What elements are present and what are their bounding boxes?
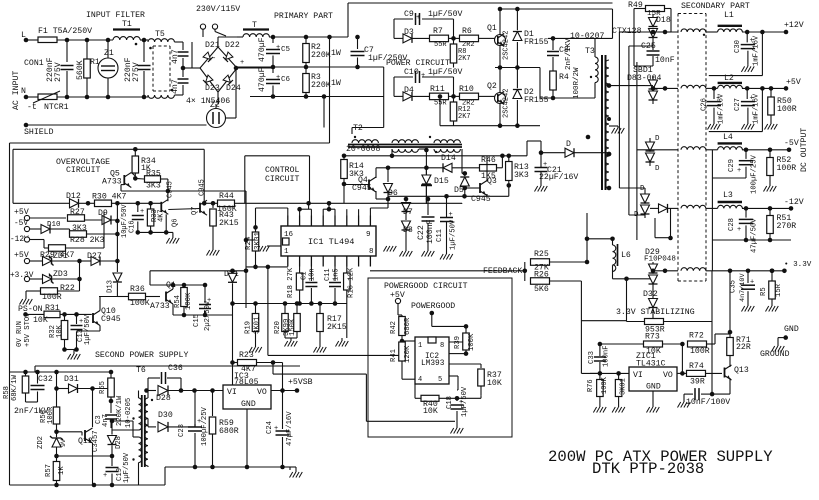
svg-text:VO: VO <box>663 371 673 380</box>
resistor R57 <box>56 456 58 462</box>
section wire <box>35 365 300 367</box>
capacitor C3a <box>182 68 184 77</box>
diode D13 <box>116 261 118 272</box>
resistor R10 <box>460 93 479 100</box>
svg-text:1W: 1W <box>331 79 341 88</box>
svg-text:C11: C11 <box>324 268 332 281</box>
svg-text:1µF/50V: 1µF/50V <box>84 314 92 345</box>
svg-text:+: + <box>276 44 280 52</box>
svg-text:2SC4242: 2SC4242 <box>503 89 511 118</box>
svg-text:Q3: Q3 <box>487 177 497 186</box>
svg-text:R19: R19 <box>245 321 253 334</box>
capacitor C29 <box>745 150 747 159</box>
resistor R71 <box>729 332 731 337</box>
svg-text:C15: C15 <box>193 314 201 327</box>
ground pads beside IC1 <box>262 245 264 247</box>
svg-text:10K: 10K <box>56 324 64 338</box>
svg-text:ZD1: ZD1 <box>53 252 68 261</box>
svg-text:IC1 TL494: IC1 TL494 <box>308 237 354 247</box>
resistor R13 <box>508 156 510 162</box>
svg-text:1mF/16V: 1mF/16V <box>753 93 761 124</box>
svg-text:10K: 10K <box>423 407 438 416</box>
capacitor C2 <box>182 42 184 50</box>
svg-text:C22: C22 <box>417 225 426 240</box>
svg-text:10n: 10n <box>309 268 317 281</box>
svg-text:D7: D7 <box>403 208 413 217</box>
IC1 bottom pin stubs <box>287 256 289 267</box>
toroid winding 3.3V <box>681 268 706 271</box>
toroid winding -5V <box>681 147 706 150</box>
svg-text:16: 16 <box>284 231 294 239</box>
wire to powergood input <box>268 354 402 356</box>
resistor R6 <box>460 35 479 42</box>
svg-text:D: D <box>655 135 660 143</box>
svg-text:-t: -t <box>27 103 37 112</box>
svg-text:55R: 55R <box>434 100 447 108</box>
capacitor C8 <box>552 38 554 50</box>
resistor R24 <box>255 208 257 232</box>
svg-text:R73: R73 <box>645 333 660 342</box>
svg-text:100K: 100K <box>185 292 193 310</box>
control circuit box <box>245 155 310 157</box>
svg-text:1mF/16V: 1mF/16V <box>718 93 726 124</box>
resistor R29 <box>49 245 66 252</box>
svg-text:C26: C26 <box>701 98 709 111</box>
riser x267 <box>267 267 269 356</box>
svg-text:ZD2: ZD2 <box>37 436 45 449</box>
resistor R39 <box>465 326 467 342</box>
svg-text:4× 1N5406: 4× 1N5406 <box>186 97 230 106</box>
svg-text:C1: C1 <box>301 272 309 280</box>
svg-text:R22: R22 <box>60 284 75 293</box>
svg-text:L4: L4 <box>723 133 733 142</box>
zener ZD2 <box>54 430 59 435</box>
capacitor C24 <box>282 391 284 430</box>
resistor R18 <box>299 267 301 274</box>
svg-text:1mF/16V: 1mF/16V <box>753 35 761 66</box>
svg-text:VO: VO <box>257 388 267 397</box>
svg-text:220K: 220K <box>311 81 331 90</box>
svg-text:2K15: 2K15 <box>327 323 347 332</box>
+5V output <box>745 86 750 91</box>
svg-text:275V: 275V <box>132 62 141 82</box>
diode single -12V <box>659 204 668 213</box>
svg-text:55R: 55R <box>434 41 447 49</box>
svg-text:100R: 100R <box>690 347 710 356</box>
IC3 output wire <box>271 390 297 392</box>
svg-text:Q2: Q2 <box>487 82 497 91</box>
top rail primary <box>271 35 276 40</box>
capacitor C1 <box>310 267 312 282</box>
svg-text:680R: 680R <box>404 317 412 335</box>
+12V sense wire <box>761 32 763 76</box>
svg-text:3K01: 3K01 <box>254 231 262 250</box>
svg-text:R41: R41 <box>390 349 398 362</box>
svg-text:100K: 100K <box>601 376 609 394</box>
svg-text:3K3: 3K3 <box>514 171 529 180</box>
svg-text:+: + <box>737 226 741 234</box>
svg-text:R42: R42 <box>390 321 398 334</box>
svg-text:120K: 120K <box>404 345 412 363</box>
resistor R25 <box>531 259 550 266</box>
resistor R17 <box>319 304 321 314</box>
mid node half bridge <box>498 65 503 70</box>
svg-text:SECONDARY PART: SECONDARY PART <box>681 2 750 11</box>
capacitor C18 <box>456 398 458 401</box>
capacitor C11b <box>446 196 448 217</box>
resistor R50 <box>770 88 772 97</box>
svg-text:R35: R35 <box>146 170 161 179</box>
svg-text:D: D <box>640 185 645 193</box>
svg-text:L3: L3 <box>723 191 733 200</box>
svg-text:FEEDBACK: FEEDBACK <box>483 267 522 276</box>
resistor R52 <box>769 150 771 157</box>
svg-text:R11: R11 <box>430 85 445 94</box>
svg-text:R72: R72 <box>689 332 704 341</box>
resistor R56 <box>53 407 60 424</box>
resistor R44 <box>218 200 235 207</box>
svg-text:C27: C27 <box>734 98 742 111</box>
svg-text:T3: T3 <box>585 47 595 56</box>
capacitor C15 <box>204 285 206 303</box>
capacitor C5 <box>272 37 274 43</box>
resistor R74 <box>677 372 686 374</box>
-5V output <box>744 148 749 153</box>
svg-text:R76: R76 <box>587 379 595 392</box>
svg-text:39R: 39R <box>690 378 705 387</box>
svg-text:L1: L1 <box>724 11 734 20</box>
svg-text:1µF/50V: 1µF/50V <box>123 452 131 483</box>
wire sense risers <box>711 271 713 394</box>
svg-text:D: D <box>566 140 571 149</box>
svg-text:T1: T1 <box>122 20 132 29</box>
svg-text:150K: 150K <box>289 318 297 336</box>
diode D7 <box>405 199 407 202</box>
svg-text:9: 9 <box>366 231 371 239</box>
svg-text:Z1: Z1 <box>104 49 114 58</box>
wire top control <box>344 155 509 157</box>
bottom rail second supply <box>10 484 166 486</box>
wire SBD1 output <box>653 87 678 89</box>
svg-text:270R: 270R <box>777 222 797 231</box>
resistor R35 <box>135 177 144 180</box>
riser x712 <box>711 178 713 271</box>
svg-text:R16 12K: R16 12K <box>348 267 356 298</box>
wire row y196 <box>388 195 465 197</box>
resistor R27 <box>68 215 85 222</box>
svg-text:AC INPUT: AC INPUT <box>12 71 21 110</box>
resistor R37 <box>480 364 482 368</box>
svg-text:GND: GND <box>241 400 256 409</box>
svg-text:47µF/16V: 47µF/16V <box>286 411 294 446</box>
svg-text:C16: C16 <box>129 220 137 233</box>
node on L line <box>65 38 70 43</box>
svg-text:100K: 100K <box>130 299 150 308</box>
wire aux to R13 top <box>526 141 528 156</box>
svg-text:D30: D30 <box>158 411 173 420</box>
+5V sense wire <box>761 88 763 131</box>
svg-text:1µF/50V: 1µF/50V <box>450 219 458 250</box>
wire overvoltage bottom rail <box>138 231 173 233</box>
svg-text:D: D <box>655 165 660 173</box>
svg-text:100R: 100R <box>777 164 797 173</box>
powergood box <box>368 278 512 437</box>
transistor Q7 C945 <box>199 203 201 213</box>
capacitor C3 <box>110 401 112 413</box>
capacitor C7 <box>357 37 359 49</box>
svg-text:470µF: 470µF <box>258 67 267 92</box>
resistor R34 <box>134 149 136 156</box>
wire ZD2 row <box>57 455 113 457</box>
resistor R2 <box>305 37 307 44</box>
svg-text:1µF/50V: 1µF/50V <box>428 9 462 19</box>
IC2 pin wires <box>402 378 415 380</box>
toroid winding +5V <box>681 85 706 88</box>
svg-text:R57: R57 <box>45 464 53 477</box>
svg-text:100µF/25V: 100µF/25V <box>201 406 209 446</box>
svg-text:D14: D14 <box>441 154 456 163</box>
IC1 TL494 <box>281 226 376 256</box>
svg-text:+: + <box>274 425 278 433</box>
svg-text:220K: 220K <box>311 51 331 60</box>
-12V output <box>744 206 749 211</box>
svg-text:10-0205: 10-0205 <box>125 398 133 428</box>
terminal SHIELD <box>24 123 29 128</box>
node -12V rectifier <box>668 236 673 241</box>
capacitor C21 <box>540 141 542 153</box>
bottom rail primary <box>271 94 276 99</box>
svg-text:C9: C9 <box>404 10 414 19</box>
top rail power circuit <box>500 8 613 10</box>
svg-text:FR155: FR155 <box>524 38 549 47</box>
svg-text:T6: T6 <box>136 366 146 375</box>
VI node row <box>598 371 603 376</box>
svg-text:3K01: 3K01 <box>254 317 262 334</box>
svg-text:D10: D10 <box>47 221 61 229</box>
svg-text:D13: D13 <box>107 280 115 293</box>
svg-text:1µF/50V: 1µF/50V <box>428 67 462 77</box>
wire mid rail down to T2 <box>383 67 385 128</box>
diode D1 FR155 <box>516 9 518 30</box>
svg-text:C6: C6 <box>281 76 291 84</box>
svg-text:22R: 22R <box>736 343 751 352</box>
svg-text:INPUT FILTER: INPUT FILTER <box>86 11 145 20</box>
svg-text:CONTROL: CONTROL <box>265 166 299 175</box>
svg-text:20-0008: 20-0008 <box>346 145 380 154</box>
svg-text:100nF: 100nF <box>603 345 611 367</box>
wire -12V rect to D29 node <box>655 237 671 239</box>
diode D5 <box>463 171 468 176</box>
svg-text:FR155: FR155 <box>524 96 549 105</box>
resistor R26 <box>531 278 550 285</box>
capacitor 10nF/100V <box>684 393 693 395</box>
vref bus y149 <box>13 148 204 150</box>
svg-text:3K3: 3K3 <box>146 182 161 191</box>
wire under IC <box>233 303 347 305</box>
resistor R14 <box>343 156 345 160</box>
resistor R20 <box>284 304 286 314</box>
wire R24 bottom <box>244 269 249 274</box>
svg-text:C945: C945 <box>199 179 207 196</box>
diode D2 FR155 <box>516 68 518 89</box>
svg-text:C18: C18 <box>446 396 454 409</box>
node R7-R6 <box>451 36 456 41</box>
svg-text:2SC4242: 2SC4242 <box>503 31 511 60</box>
svg-text:C24: C24 <box>266 421 274 434</box>
node R34 R35 Q5 <box>133 176 138 181</box>
IC1 top pin wires <box>287 208 289 216</box>
svg-text:1W: 1W <box>331 49 341 58</box>
svg-text:VI: VI <box>227 388 237 397</box>
svg-text:100R/2W: 100R/2W <box>573 67 581 99</box>
capacitor C4 <box>143 40 145 62</box>
resistor R32 <box>64 314 66 321</box>
resistor R41 <box>400 339 405 344</box>
svg-text:2nF/1KV: 2nF/1KV <box>565 38 573 70</box>
thermistor NTCR1 <box>38 94 57 100</box>
svg-text:C3457: C3457 <box>92 430 100 452</box>
capacitor C16 <box>137 203 139 212</box>
svg-text:R5: R5 <box>760 287 768 296</box>
resistor R53 953R <box>645 319 664 325</box>
resistor R55b <box>771 271 773 281</box>
capacitor C22 <box>427 199 429 215</box>
svg-text:-12V: -12V <box>784 198 804 207</box>
wire Q3 row to aux <box>465 195 487 197</box>
wire under IC pin1 row <box>246 266 288 268</box>
wire R23 to powergood supply <box>271 360 276 365</box>
wire snubber <box>548 37 613 39</box>
svg-text:5: 5 <box>438 376 442 384</box>
svg-text:100K: 100K <box>468 333 476 351</box>
left edge wires <box>9 143 11 485</box>
svg-text:1: 1 <box>284 248 289 256</box>
resistor R31 <box>44 311 60 318</box>
ground under R16 <box>346 304 348 339</box>
svg-text:R55: R55 <box>99 381 107 394</box>
capacitor C35 <box>747 271 749 283</box>
svg-text:R6: R6 <box>462 27 472 36</box>
svg-text:1K: 1K <box>58 466 66 475</box>
node R25 right riser <box>585 260 590 265</box>
svg-text:-5V: -5V <box>784 139 799 148</box>
zener D15 <box>422 175 431 184</box>
zener ZD3 <box>43 275 52 284</box>
svg-text:100nF: 100nF <box>426 219 435 244</box>
svg-text:SHIELD: SHIELD <box>24 128 54 137</box>
svg-text:+: + <box>737 167 741 175</box>
svg-text:Q6: Q6 <box>172 219 180 227</box>
capacitor C12 <box>66 40 68 62</box>
bus wire y203 <box>235 202 463 204</box>
feedback wire <box>370 270 525 272</box>
ground under D8 <box>405 247 407 251</box>
svg-text:D18: D18 <box>656 16 671 25</box>
svg-text:F1 T5A/250V: F1 T5A/250V <box>38 26 92 36</box>
svg-text:10nF/100V: 10nF/100V <box>686 397 730 407</box>
svg-text:C945: C945 <box>167 181 175 198</box>
svg-text:3.3V STABILIZING: 3.3V STABILIZING <box>616 308 695 317</box>
svg-text:GROUND: GROUND <box>760 350 790 359</box>
svg-text:D8: D8 <box>403 226 413 235</box>
resistor R11 <box>430 93 449 100</box>
svg-text:POWERGOOD CIRCUIT: POWERGOOD CIRCUIT <box>384 282 468 291</box>
svg-text:560K: 560K <box>76 60 85 80</box>
capacitor C27 <box>746 88 748 99</box>
ground at bottom rail <box>289 467 291 470</box>
wire D18 output <box>652 43 654 46</box>
transistor Q13 <box>724 368 726 378</box>
svg-text:C30: C30 <box>734 40 742 53</box>
svg-text:CIRCUIT: CIRCUIT <box>66 166 100 175</box>
svg-text:R46: R46 <box>481 156 496 165</box>
svg-text:D31: D31 <box>64 375 79 384</box>
svg-text:R23: R23 <box>239 351 254 360</box>
svg-text:A733: A733 <box>150 302 170 311</box>
resistor R40 <box>421 395 439 401</box>
resistor R42 <box>399 317 406 336</box>
svg-text:R27: R27 <box>70 208 85 217</box>
svg-text:C33: C33 <box>588 351 596 364</box>
svg-text:470µF: 470µF <box>258 37 267 62</box>
transistor Q6 C945 <box>160 202 162 212</box>
svg-text:R54: R54 <box>174 295 182 308</box>
svg-text:100µF/25V: 100µF/25V <box>751 154 759 194</box>
resistor R73 <box>644 341 663 347</box>
svg-text:D15: D15 <box>434 177 449 186</box>
svg-text:GND: GND <box>784 325 799 334</box>
svg-text:R10: R10 <box>459 85 474 94</box>
svg-text:8: 8 <box>369 248 374 256</box>
svg-text:+: + <box>276 74 280 82</box>
svg-text:T2: T2 <box>353 124 363 133</box>
IC1 top pin stubs <box>287 216 289 227</box>
svg-text:CON1: CON1 <box>24 59 44 68</box>
svg-text:D28: D28 <box>115 436 123 449</box>
svg-text:4: 4 <box>418 376 422 384</box>
svg-text:C28: C28 <box>728 218 736 231</box>
svg-text:100R: 100R <box>777 105 797 114</box>
svg-text:D24: D24 <box>226 84 241 93</box>
svg-text:R31: R31 <box>45 304 60 313</box>
svg-text:4n7: 4n7 <box>171 49 180 64</box>
resistor R72 <box>688 341 707 347</box>
svg-text:+: + <box>240 59 244 67</box>
svg-text:100R: 100R <box>42 293 62 302</box>
svg-text:8: 8 <box>440 342 444 350</box>
svg-text:2K7: 2K7 <box>458 113 471 121</box>
capacitor C26 <box>713 88 715 99</box>
resistor R22 <box>41 288 58 295</box>
svg-text:R28 2K3: R28 2K3 <box>70 236 104 245</box>
svg-text:4n7: 4n7 <box>171 79 180 94</box>
svg-text:C11: C11 <box>436 229 444 242</box>
wire to IC3 <box>195 390 224 392</box>
svg-text:22µF/16V: 22µF/16V <box>539 172 578 182</box>
svg-text:SECOND POWER SUPPLY: SECOND POWER SUPPLY <box>95 351 188 360</box>
resistor R33 <box>150 203 152 209</box>
svg-text:2K15: 2K15 <box>219 219 239 228</box>
svg-text:4n7: 4n7 <box>102 414 110 427</box>
dashed box output toroid <box>678 13 706 15</box>
capacitor C13 <box>76 314 78 324</box>
diode D28 vertical <box>111 421 113 435</box>
resistor R21 <box>296 304 298 314</box>
svg-text:LM393: LM393 <box>421 360 445 368</box>
svg-text:F10P048: F10P048 <box>644 256 676 264</box>
svg-text:DTK PTP-2038: DTK PTP-2038 <box>592 460 704 478</box>
svg-text:C29: C29 <box>728 159 736 172</box>
